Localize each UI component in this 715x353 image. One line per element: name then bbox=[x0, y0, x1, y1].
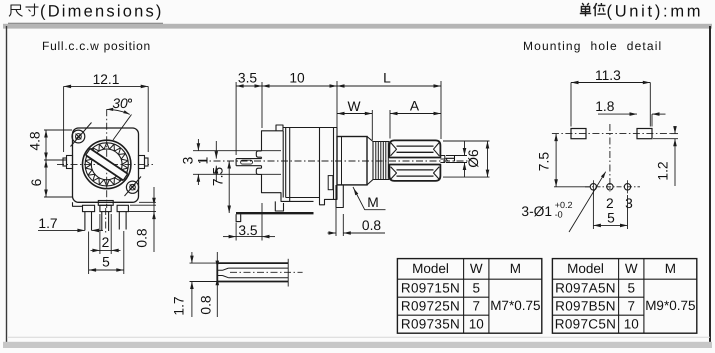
svg-text:5: 5 bbox=[607, 210, 615, 225]
dimension 1.7 bbox=[38, 229, 85, 231]
svg-text:30: 30 bbox=[112, 96, 128, 111]
table header row line bbox=[552, 278, 696, 280]
unit label Chinese dan-wei strokes bbox=[582, 3, 584, 5]
mounting detail vertical centerline bbox=[609, 124, 611, 192]
svg-text:5: 5 bbox=[627, 281, 635, 296]
svg-text:Model: Model bbox=[412, 261, 449, 276]
svg-text:1.7: 1.7 bbox=[38, 216, 57, 231]
left side tab bbox=[67, 156, 73, 169]
front plate side tab detail bbox=[328, 176, 333, 190]
table column lines bbox=[463, 259, 465, 334]
svg-text:3: 3 bbox=[181, 156, 196, 164]
dimension 12.1 bbox=[63, 86, 65, 152]
front view middle pin extension centerline bbox=[105, 208, 107, 233]
body corner chamfer top-left bbox=[71, 123, 92, 147]
svg-text:2: 2 bbox=[606, 196, 614, 211]
svg-text:1.8: 1.8 bbox=[595, 99, 615, 114]
dimension 1 shaft tip bbox=[446, 155, 467, 157]
dimension 0.8 side bbox=[335, 208, 337, 236]
svg-text:R097A5N: R097A5N bbox=[555, 281, 616, 296]
svg-text:5: 5 bbox=[102, 254, 110, 269]
body corner chamfer bottom-right bbox=[125, 177, 142, 197]
dimension row 3.5 / 10 / L bbox=[235, 82, 237, 155]
front view body bbox=[73, 128, 139, 202]
dimension 1 left bbox=[215, 141, 217, 159]
svg-text:0.8: 0.8 bbox=[134, 228, 149, 248]
svg-text:2: 2 bbox=[102, 235, 110, 250]
svg-text:7: 7 bbox=[472, 299, 480, 314]
right side tab bbox=[139, 156, 145, 169]
knob serration outer circle bbox=[85, 143, 128, 186]
svg-text:R097B5N: R097B5N bbox=[555, 299, 616, 314]
front view body bottom-left step bbox=[73, 202, 83, 206]
middle pin boss bbox=[98, 201, 113, 206]
svg-text:12.1: 12.1 bbox=[93, 72, 120, 87]
pin 2 narrow bbox=[101, 212, 103, 231]
dimension 30 deg leader bbox=[113, 115, 132, 141]
frame bottom bar bbox=[3, 342, 712, 348]
pin hole 1 bbox=[590, 184, 596, 190]
svg-text:7.5: 7.5 bbox=[537, 152, 552, 172]
table column lines bbox=[618, 259, 620, 334]
knob slot bbox=[86, 148, 128, 180]
svg-text:10: 10 bbox=[624, 317, 639, 332]
pin detail outline bbox=[217, 263, 288, 281]
svg-text:1: 1 bbox=[443, 155, 458, 163]
svg-text:L: L bbox=[383, 71, 391, 86]
dimension W and A bbox=[371, 110, 373, 140]
pin 1 narrow bbox=[84, 212, 86, 231]
svg-text:A: A bbox=[410, 99, 420, 114]
mounting slot left bbox=[571, 129, 586, 139]
table row lines bbox=[552, 296, 644, 298]
svg-text:7.5: 7.5 bbox=[211, 167, 226, 187]
frame right edge bbox=[709, 26, 711, 344]
mounting detail horizontal centerline bbox=[552, 133, 671, 135]
dimension 3 left bbox=[193, 150, 281, 152]
pin hole 3 bbox=[624, 184, 630, 190]
svg-text:M: M bbox=[665, 261, 676, 276]
svg-text:W: W bbox=[470, 261, 483, 276]
label M with leader bbox=[353, 187, 386, 210]
pin strip slot hole bbox=[241, 160, 253, 164]
knurl bottom teeth bbox=[397, 170, 434, 176]
svg-text:1: 1 bbox=[196, 157, 211, 165]
svg-text:R09735N: R09735N bbox=[401, 317, 460, 332]
table row lines bbox=[397, 296, 489, 298]
svg-text:M9*0.75: M9*0.75 bbox=[645, 298, 695, 313]
bracket top tab bbox=[276, 125, 283, 131]
bushing bbox=[337, 137, 367, 185]
svg-text:Mounting hole detail: Mounting hole detail bbox=[523, 39, 662, 53]
bushing taper bbox=[367, 137, 373, 185]
pin detail dimension 1.7 bbox=[190, 262, 220, 264]
svg-text:1.2: 1.2 bbox=[656, 161, 671, 180]
mounting slot right bbox=[637, 129, 652, 139]
frame bottom inner line bbox=[7, 336, 710, 338]
pin hole 2 bbox=[607, 184, 613, 190]
svg-text:5: 5 bbox=[472, 281, 480, 296]
screw bottom-right bbox=[126, 181, 138, 193]
svg-text:0.8: 0.8 bbox=[198, 295, 213, 315]
svg-text:0.8: 0.8 bbox=[362, 218, 382, 233]
svg-text:R09725N: R09725N bbox=[401, 299, 460, 314]
bent pin below plate bbox=[236, 214, 241, 221]
table outer border bbox=[397, 259, 541, 334]
front view vertical centerline bbox=[106, 109, 108, 208]
knurled shaft bottom half bbox=[389, 165, 440, 181]
svg-text:R097C5N: R097C5N bbox=[555, 317, 616, 332]
svg-text:W: W bbox=[625, 261, 638, 276]
pin detail end boundary bbox=[287, 259, 289, 287]
pin detail inner tongue bbox=[217, 270, 222, 275]
side view bottom plate bbox=[236, 212, 314, 214]
hole callout leader bbox=[569, 172, 606, 232]
pin shoulders bbox=[83, 205, 95, 211]
side view pin strip bbox=[236, 159, 261, 166]
screw top-left bbox=[72, 130, 85, 143]
svg-text:R09715N: R09715N bbox=[401, 281, 460, 296]
dimension 11.3 bbox=[570, 83, 572, 127]
knob outer circle bbox=[83, 140, 131, 188]
pin detail dimension 0.8 bbox=[216, 252, 218, 268]
svg-text:4.8: 4.8 bbox=[28, 131, 43, 151]
table outer border bbox=[552, 259, 696, 334]
dimension 1.2 bbox=[653, 138, 678, 140]
dimension 7.5 side bbox=[228, 161, 230, 213]
dimension 5 mounting bbox=[592, 191, 594, 229]
svg-text:Model: Model bbox=[567, 261, 604, 276]
svg-text:(Dimensions): (Dimensions) bbox=[40, 3, 164, 21]
pin holes centerline bbox=[585, 186, 640, 188]
title rule under Dimensions bbox=[8, 22, 163, 24]
svg-text:3.5: 3.5 bbox=[238, 223, 258, 238]
svg-text:W: W bbox=[347, 99, 360, 114]
svg-text:6: 6 bbox=[29, 178, 44, 186]
title Chinese chi-cun strokes bbox=[11, 5, 21, 10]
pin detail centerline bbox=[230, 271, 303, 273]
knurl top teeth bbox=[397, 146, 434, 152]
dimension 3.5 bottom bbox=[235, 223, 237, 241]
svg-text:7: 7 bbox=[627, 299, 635, 314]
bracket pin bump upper bbox=[256, 151, 261, 157]
svg-text:Full.c.c.w position: Full.c.c.w position bbox=[42, 39, 151, 53]
frame left edge bbox=[6, 26, 8, 344]
svg-text:1.7: 1.7 bbox=[172, 296, 187, 315]
bracket bottom tab bbox=[275, 201, 283, 211]
side view main body bbox=[282, 131, 284, 198]
dimension 0.8 front view bbox=[139, 201, 156, 203]
table header row line bbox=[397, 278, 541, 280]
dimension 1.8 bbox=[651, 114, 653, 126]
svg-text:(Unit):mm: (Unit):mm bbox=[607, 3, 704, 21]
dimension 4.8 and 6 bbox=[44, 129, 72, 131]
knob inner circle bbox=[91, 149, 122, 180]
svg-text:11.3: 11.3 bbox=[595, 68, 621, 83]
front plate bbox=[333, 128, 335, 200]
knurled shaft top half bbox=[389, 140, 440, 157]
front view horizontal centerline bbox=[57, 163, 153, 165]
knob serration ring bbox=[85, 143, 128, 186]
bracket pin bump lower bbox=[256, 168, 261, 174]
svg-text:M: M bbox=[510, 261, 521, 276]
shaft rings bbox=[375, 142, 377, 180]
side view centerline bbox=[200, 160, 469, 162]
svg-text:10: 10 bbox=[289, 71, 305, 86]
dimension 30 deg arc bbox=[107, 109, 130, 114]
svg-text:-0: -0 bbox=[555, 209, 563, 219]
frame top bar bbox=[3, 24, 712, 29]
side view bracket plate bbox=[262, 131, 284, 151]
dimension 5 bbox=[88, 232, 90, 275]
body bottom step bbox=[320, 198, 334, 205]
dimension 2 bbox=[99, 214, 101, 254]
dimension diameter 6 bbox=[443, 140, 490, 142]
svg-text:M: M bbox=[367, 195, 379, 210]
shaft tip slot bbox=[440, 156, 444, 163]
svg-text:3: 3 bbox=[625, 196, 633, 211]
svg-text:Ø6: Ø6 bbox=[466, 149, 481, 168]
pin 3 narrow bbox=[118, 212, 120, 230]
dimension 7.5 mounting bbox=[554, 186, 590, 188]
svg-text:3.5: 3.5 bbox=[238, 71, 258, 86]
svg-text:3-Ø1: 3-Ø1 bbox=[521, 204, 552, 219]
svg-text:10: 10 bbox=[469, 317, 484, 332]
anti-rotation lug bbox=[336, 185, 343, 208]
svg-text:M7*0.75: M7*0.75 bbox=[490, 298, 540, 313]
